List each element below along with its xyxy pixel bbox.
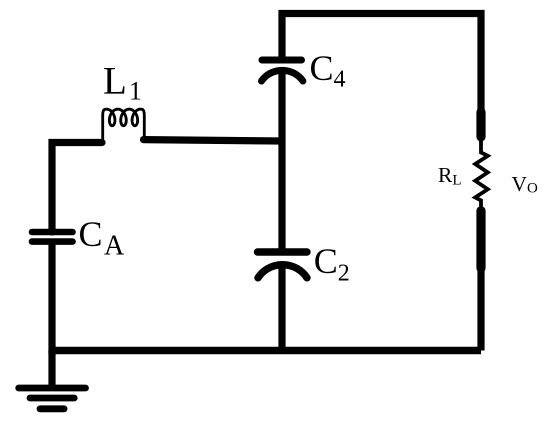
resistor RL top terminal stub	[476, 112, 485, 137]
wire: left vertical lower (CA to bottom)	[48, 242, 55, 355]
svg-text:L1: L1	[103, 60, 142, 106]
wire: middle vertical (C4 arc to C2 plate)	[278, 68, 285, 253]
capacitor C4 curved plate	[262, 70, 303, 81]
capacitor C2 flat plate	[258, 248, 308, 255]
wire: inductor to middle junction	[144, 140, 283, 141]
resistor RL bottom terminal stub	[476, 211, 485, 268]
capacitor CA top plate	[32, 229, 73, 236]
wire: right vertical lower (resistor to bottom)	[477, 209, 484, 351]
wire: mid-vertical top + top horizontal + right vertical upper	[282, 14, 481, 138]
inductor L1 coil	[103, 109, 145, 141]
svg-text:CA: CA	[79, 214, 126, 262]
capacitor CA bottom plate	[32, 238, 73, 245]
resistor RL zigzag	[475, 140, 488, 209]
svg-text:C2: C2	[314, 241, 350, 287]
ground	[19, 388, 86, 409]
wire: bottom horizontal	[52, 347, 481, 354]
wire: left vertical upper (corner to CA)	[52, 143, 102, 233]
wire: ground stub	[48, 350, 55, 388]
capacitor C4 flat plate	[262, 57, 302, 64]
svg-text:VO: VO	[512, 172, 539, 197]
svg-text:C4: C4	[310, 48, 346, 93]
capacitor C2 curved plate	[258, 265, 307, 278]
wire: middle vertical (C2 arc to bottom)	[278, 262, 285, 352]
svg-text:RL: RL	[438, 163, 462, 189]
